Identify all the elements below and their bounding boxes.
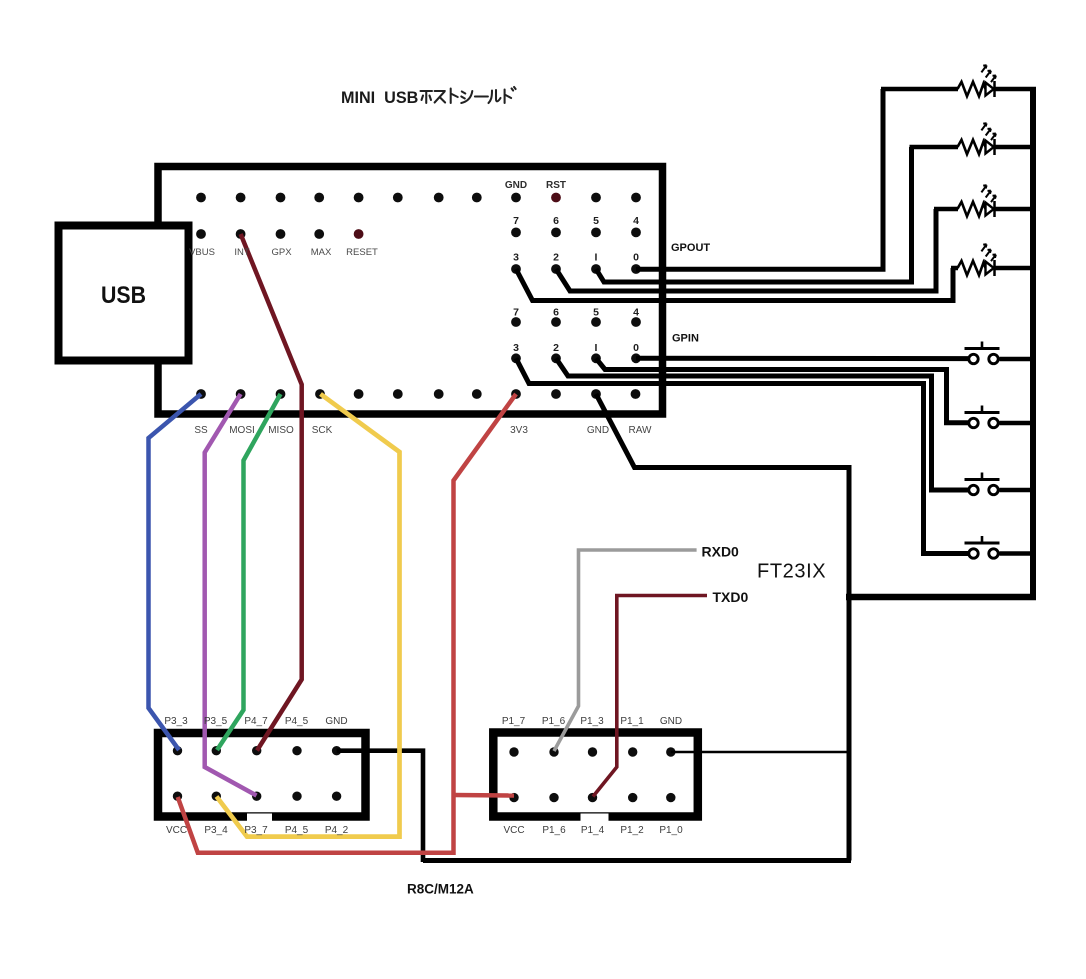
svg-text:2: 2 (553, 342, 559, 354)
svg-text:P4_7: P4_7 (244, 716, 268, 727)
svg-text:P1_2: P1_2 (620, 825, 644, 836)
labels header J3 bottom row (503, 825, 683, 836)
svg-text:0: 0 (633, 252, 639, 264)
header J3 pins top row (509, 747, 675, 756)
svg-text:INT: INT (234, 247, 250, 258)
wire GPIN3 to switch SW4 (516, 358, 969, 553)
svg-text:P1_6: P1_6 (542, 716, 566, 727)
title MINI USB host shield (341, 87, 516, 107)
svg-text:I: I (595, 342, 598, 354)
svg-text:RXD0: RXD0 (702, 544, 740, 560)
wire GPOUT3 to LED4 (516, 268, 953, 301)
svg-text:MOSI: MOSI (229, 425, 255, 436)
svg-text:2: 2 (553, 252, 559, 264)
LED D3 (981, 185, 1036, 217)
svg-text:USB: USB (101, 282, 146, 309)
labels SS MOSI MISO SCK (194, 425, 332, 436)
wire red 3V3 to VCC pins (178, 394, 516, 853)
push button SW4 (965, 536, 1037, 558)
svg-text:P1_0: P1_0 (659, 825, 683, 836)
LED circuit row 3: resistor R3 (934, 202, 986, 216)
board top pin row dots (196, 193, 641, 203)
svg-text:P4_2: P4_2 (325, 825, 349, 836)
header J2 pins top row (173, 746, 341, 755)
svg-text:MINI USB: MINI USB (341, 89, 418, 107)
svg-text:7: 7 (513, 215, 519, 227)
svg-text:MAX: MAX (311, 247, 332, 258)
wire green MISO to P3_5 (217, 394, 281, 750)
svg-text:I: I (595, 252, 598, 264)
svg-text:VCC: VCC (503, 825, 524, 836)
RST pin dot (dark red) (551, 193, 561, 203)
svg-text:GPX: GPX (271, 247, 292, 258)
board bottom pin row dots (196, 389, 640, 399)
wire GND bottom horizontal run (423, 858, 851, 863)
svg-text:5: 5 (593, 307, 599, 319)
LED D2 (981, 123, 1036, 155)
GPIN pins 7 6 5 4 dots (511, 317, 641, 327)
svg-text:R8C/M12A: R8C/M12A (407, 882, 474, 897)
wire GPOUT1 to LED2 (596, 147, 912, 282)
labels 3V3 GND RAW (510, 425, 652, 436)
svg-text:4: 4 (633, 215, 639, 227)
svg-text:P3_4: P3_4 (204, 825, 228, 836)
svg-text:MISO: MISO (268, 425, 294, 436)
RESET pin dot (dark red) (354, 229, 364, 239)
svg-text:3: 3 (513, 342, 519, 354)
VBUS INT GPX MAX pin dots (196, 229, 324, 239)
svg-text:SCK: SCK (312, 425, 333, 436)
svg-text:GND: GND (505, 180, 527, 191)
svg-text:FT23IX: FT23IX (757, 561, 826, 583)
LED circuit row 4: resistor R4 (951, 261, 986, 275)
svg-text:GPOUT: GPOUT (671, 242, 710, 254)
svg-text:7: 7 (513, 307, 519, 319)
labels GPOUT numbers 3 2 1 0 (513, 252, 639, 264)
svg-text:P4_5: P4_5 (285, 716, 309, 727)
svg-text:P3_3: P3_3 (164, 716, 188, 727)
svg-text:3: 3 (513, 252, 519, 264)
svg-text:P1_7: P1_7 (502, 716, 526, 727)
wire GPIN1 to switch SW2 (596, 358, 969, 423)
svg-text:GND: GND (587, 425, 609, 436)
LED circuit row 2: resistor R2 (910, 140, 986, 154)
right ground rail bus (1030, 87, 1036, 597)
svg-text:GND: GND (325, 716, 347, 727)
wire dark-red TXD0 to P1_4 (593, 596, 707, 797)
push button SW3 (965, 473, 1037, 495)
wire blue SS to P3_3 (149, 394, 202, 750)
GPOUT pins 7 6 5 4 dots (511, 228, 641, 238)
svg-text:VCC: VCC (166, 825, 187, 836)
svg-text:4: 4 (633, 307, 639, 319)
labels header J2 top row (164, 716, 347, 727)
LED D4 (981, 244, 1036, 276)
svg-text:3V3: 3V3 (510, 425, 528, 436)
labels GPOUT numbers 7 6 5 4 (513, 215, 639, 227)
LED circuit row 1: resistor R1 (881, 82, 986, 96)
svg-text:P1_1: P1_1 (620, 716, 644, 727)
wire GPOUT0 to LED1 (636, 89, 883, 269)
wire purple MOSI to P3_7 (205, 394, 257, 796)
USB connector J1 box (59, 226, 189, 361)
svg-text:P3_7: P3_7 (244, 825, 268, 836)
push button SW2 (965, 406, 1037, 428)
wire red branch to FT231X VCC (454, 793, 515, 798)
svg-text:P1_4: P1_4 (581, 825, 605, 836)
svg-text:SS: SS (194, 425, 208, 436)
svg-text:P4_5: P4_5 (285, 825, 309, 836)
labels header J3 top row (502, 716, 682, 727)
wire GPIN0 to switch SW1 (636, 356, 968, 361)
svg-text:P3_5: P3_5 (204, 716, 228, 727)
wire GPOUT2 to LED3 (556, 209, 936, 291)
svg-text:TXD0: TXD0 (713, 589, 749, 605)
labels GPIN numbers 3 2 1 0 (513, 342, 639, 354)
wire dark-red INT to P4_7 (241, 234, 302, 751)
katakana ho-su-to-shi-ru-do drawn as paths (421, 87, 516, 103)
wire yellow SCK to P3_4 (217, 394, 400, 837)
wire GPIN2 to switch SW3 (556, 358, 968, 490)
wire gray RXD0 to P1_6 (554, 550, 697, 751)
header J2 R8C/M12A outline (158, 733, 366, 822)
svg-text:6: 6 (553, 215, 559, 227)
GPOUT pins 3 2 1 0 dots (511, 264, 641, 274)
GPIN pins 3 2 1 0 dots (511, 353, 641, 363)
USB host shield board U1 outline (158, 167, 663, 415)
header J3 FT231X outline (493, 733, 698, 822)
LED D1 (981, 65, 1036, 97)
svg-text:6: 6 (553, 307, 559, 319)
svg-text:GPIN: GPIN (672, 333, 699, 345)
svg-text:RAW: RAW (629, 425, 653, 436)
labels VBUS INT GPX MAX RESET (189, 247, 378, 258)
labels header J2 bottom row (166, 825, 349, 836)
svg-text:VBUS: VBUS (189, 247, 215, 258)
svg-text:GND: GND (660, 716, 682, 727)
svg-text:0: 0 (633, 342, 639, 354)
header J3 pins bottom row (509, 793, 675, 802)
wire GND bus link to right rail (thick) (846, 594, 1036, 601)
wire GND net: board GND pin diagonal and run to right bus (596, 394, 849, 861)
svg-text:5: 5 (593, 215, 599, 227)
svg-text:P1_3: P1_3 (580, 716, 604, 727)
svg-text:RESET: RESET (346, 247, 378, 258)
labels GPIN numbers 7 6 5 4 (513, 307, 639, 319)
wire FT231X GND pin to GND net (thin) (671, 751, 850, 753)
push button SW1 (965, 342, 1037, 364)
header J2 pins bottom row (173, 792, 341, 801)
wire R8C GND pin to GND net (337, 751, 423, 862)
svg-text:RST: RST (546, 180, 566, 191)
svg-text:P1_6: P1_6 (542, 825, 566, 836)
